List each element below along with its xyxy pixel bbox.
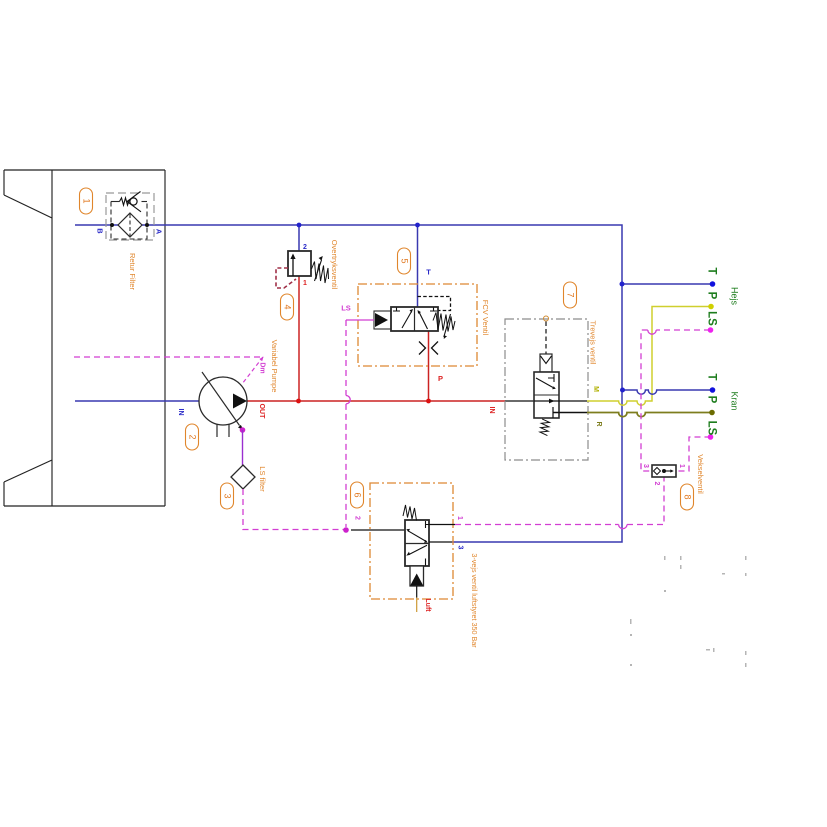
wire: purple pump drain to LS filter (242, 430, 244, 465)
wire: magenta dashed LS filter to valve 6 (243, 489, 344, 530)
balloon 7 (564, 282, 577, 308)
svg-text:LS: LS (705, 421, 717, 436)
wire: magenta dashed valve6 port1 to shuttle (455, 524, 619, 526)
svg-text:P: P (705, 292, 717, 300)
svg-text:3: 3 (223, 493, 233, 498)
component 8: shuttle valve (652, 465, 676, 477)
svg-text:2: 2 (188, 434, 198, 439)
svg-text:B: B (96, 228, 105, 234)
svg-text:IN: IN (488, 407, 495, 414)
balloon 8 (681, 484, 694, 510)
wire: red pressure line pump to valve 7 (247, 400, 505, 402)
svg-text:T: T (705, 373, 717, 380)
wire: black IN segment into valve 7 box (505, 400, 534, 402)
wire: magenta dashed diagonal to pump (242, 357, 263, 384)
node: magenta endpoint LS Hejs (708, 327, 714, 333)
svg-text:4: 4 (283, 304, 293, 309)
svg-text:2: 2 (354, 516, 361, 520)
wire: blue T Kran with hops (623, 390, 715, 394)
wire: blue tank return main line (75, 225, 622, 542)
svg-text:T: T (426, 267, 431, 276)
component 6: 3-way air valve (351, 483, 455, 612)
svg-text:LS filter: LS filter (258, 466, 267, 492)
svg-text:Vekselventil: Vekselventil (696, 454, 705, 494)
component 5: FCV valve (358, 284, 477, 366)
svg-text:2: 2 (303, 244, 307, 251)
svg-text:7: 7 (566, 292, 576, 297)
balloon 6 (351, 482, 364, 508)
wire: blue T Hejs (622, 283, 714, 285)
svg-text:2: 2 (653, 482, 660, 486)
svg-text:1: 1 (678, 464, 685, 468)
node: yellow endpoint P Hejs (708, 304, 714, 310)
svg-text:P: P (705, 396, 717, 404)
svg-text:Kran: Kran (730, 391, 740, 410)
svg-text:P: P (438, 374, 443, 383)
node: olive endpoint P Kran (709, 410, 715, 416)
node: magenta junction LS at valve 6 (343, 527, 349, 533)
component 7: trevejs ventil (505, 316, 588, 460)
svg-text:Retur Filter: Retur Filter (128, 253, 137, 291)
wire: red relief valve branch (298, 276, 300, 401)
wire: magenta dashed LS Hejs with hop (656, 329, 710, 331)
balloon 5 (398, 248, 411, 274)
svg-text:1: 1 (303, 280, 307, 287)
node: red junction at valve 5 P (426, 399, 431, 404)
wire: blue T line to valve 4 (298, 225, 300, 251)
arrowhead: Dm line (259, 357, 263, 362)
component 2: variable pump (199, 372, 247, 437)
svg-text:1: 1 (82, 198, 92, 203)
svg-text:FCV Ventil: FCV Ventil (481, 300, 490, 336)
tank outline (4, 170, 165, 506)
speckle artifacts (630, 556, 747, 667)
svg-text:T: T (705, 267, 717, 274)
wire: black M out segment (559, 400, 587, 402)
svg-text:Trevejs ventil: Trevejs ventil (589, 321, 598, 365)
wire: yellow M line to P Hejs (587, 307, 709, 406)
node: blue junction at valve 5 T (415, 223, 420, 228)
balloon 3 (221, 483, 234, 509)
svg-text:LS: LS (341, 303, 351, 312)
wire: magenta dashed Dm control line (74, 356, 263, 358)
node: blue junction at valve 4 (297, 223, 302, 228)
component 1: retur filter (106, 192, 154, 241)
node: red junction at relief branch (296, 399, 301, 404)
svg-text:8: 8 (683, 494, 693, 499)
svg-text:Variabel Pumpe: Variabel Pumpe (270, 340, 279, 393)
wire: red valve 5 P branch (428, 331, 430, 401)
svg-text:5: 5 (400, 258, 410, 263)
svg-text:A: A (155, 229, 164, 235)
node: blue endpoint T Hejs (710, 281, 716, 287)
svg-text:OUT: OUT (258, 404, 265, 420)
svg-text:IN: IN (177, 409, 184, 416)
svg-text:3-vejs ventil luftstyret 350 B: 3-vejs ventil luftstyret 350 Bar (470, 553, 479, 648)
svg-text:Overtryksventil: Overtryksventil (330, 240, 339, 290)
svg-text:M: M (592, 386, 599, 392)
svg-text:3: 3 (642, 464, 649, 468)
wire: magenta dashed LS down with hop (345, 320, 347, 396)
svg-text:Luft: Luft (424, 598, 431, 612)
node: blue junction T Kran (620, 388, 625, 393)
node: blue junction T Hejs (620, 282, 625, 287)
svg-text:3: 3 (457, 546, 464, 550)
wire: olive R line to P Kran (587, 413, 712, 417)
svg-text:Hejs: Hejs (730, 287, 740, 306)
component 4: relief valve (276, 251, 329, 288)
wire: magenta dashed LS Kran to shuttle port 1 (676, 437, 711, 471)
node: blue endpoint T Kran (710, 387, 716, 393)
wire: magenta LS into valve 5 (346, 319, 374, 321)
balloon 4 (281, 294, 294, 320)
svg-text:Dm: Dm (259, 362, 266, 373)
svg-text:R: R (595, 421, 602, 426)
svg-text:6: 6 (353, 492, 363, 497)
component 3: LS filter (231, 465, 255, 489)
balloon 2 (186, 424, 199, 450)
svg-text:1: 1 (456, 516, 463, 520)
wire: blue pump suction line (75, 400, 199, 402)
node: magenta endpoint LS Kran (708, 434, 714, 440)
balloon 1 (80, 188, 93, 214)
wire: blue T line to valve 5 (417, 225, 419, 307)
svg-text:LS: LS (705, 311, 717, 326)
node: magenta junction pump drain (240, 427, 246, 433)
